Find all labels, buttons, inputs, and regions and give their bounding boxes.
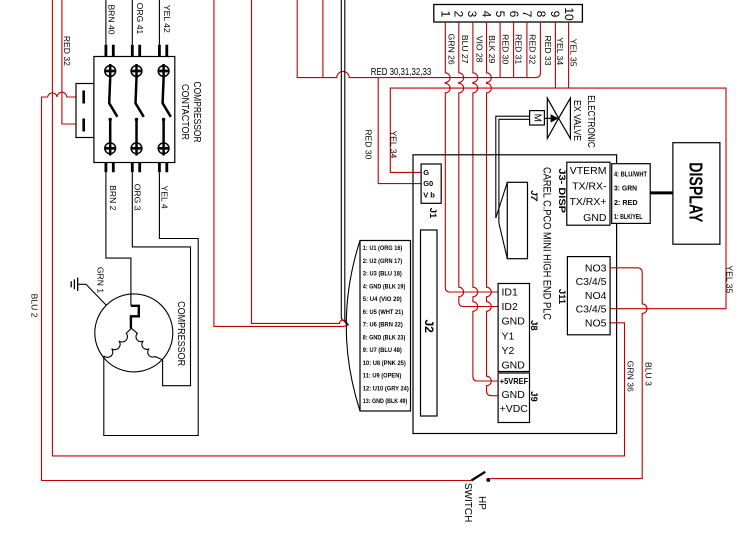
svg-text:+VDC: +VDC [500,403,529,415]
svg-text:BLU 2: BLU 2 [30,294,40,318]
svg-text:SWITCH: SWITCH [462,483,473,522]
svg-text:C3/4/5: C3/4/5 [576,303,607,315]
svg-text:4: BLU/WHT: 4: BLU/WHT [614,171,648,178]
svg-text:3: U3 (BLU 18): 3: U3 (BLU 18) [363,271,402,278]
connector J1 [421,164,441,203]
svg-text:J9: J9 [528,391,539,402]
wire YEL 34 drop (pin9) [554,22,556,88]
svg-text:4: GND (BLK 19): 4: GND (BLK 19) [363,283,406,290]
connector J9 [498,373,529,423]
svg-text:GND: GND [502,389,526,401]
wire BRN 2: contactor to compressor center zigzag [106,172,131,305]
terminal strip TB [434,5,583,23]
valve ELECTRONIC EX VALVE [547,98,570,138]
svg-text:ID1: ID1 [502,287,519,299]
svg-text:+5VREF: +5VREF [500,377,528,386]
svg-text:J2: J2 [422,320,436,334]
svg-text:4: 4 [479,11,493,18]
svg-text:5: U4 (VIO 20): 5: U4 (VIO 20) [363,296,402,303]
connector J8 [498,284,529,372]
svg-text:ORG 41: ORG 41 [135,3,145,35]
svg-text:1: BLK/YEL: 1: BLK/YEL [614,214,643,221]
J2 pin list table [346,241,410,412]
wire YEL 35 (pin10, bus to J1 G and to J11 C3/4/5 via right edge) [390,22,726,309]
svg-text:2: 2 [452,11,466,18]
svg-text:VIO 28: VIO 28 [475,36,485,63]
svg-text:G0: G0 [423,179,433,188]
connector J3-DISP (VTERM block) [567,162,610,225]
svg-text:DISPLAY: DISPLAY [686,162,706,222]
coil terminal bar (bottom) [82,119,85,132]
svg-text:8: 8 [534,11,548,18]
wire BLU 2: coil top to HP switch, hops over x52/x62 [42,92,472,480]
svg-text:J1: J1 [427,208,438,219]
svg-text:NO4: NO4 [585,290,607,302]
DISPLAY unit [673,143,720,245]
svg-text:1: U1 (ORG 16): 1: U1 (ORG 16) [363,245,403,252]
wire RED 31 drop (pin6) [513,22,515,78]
svg-text:GRN 26: GRN 26 [447,34,457,65]
electronic expansion valve cable (2 lines M to J7) [496,116,530,223]
svg-text:RED 30: RED 30 [500,34,510,64]
svg-text:V b: V b [423,190,435,199]
svg-text:RED 33: RED 33 [543,35,553,65]
ground symbol [71,278,106,306]
svg-text:2: RED: 2: RED [614,200,638,207]
svg-text:ID2: ID2 [502,301,519,313]
svg-text:GND: GND [502,316,526,328]
svg-text:YEL 35: YEL 35 [725,265,735,293]
svg-text:13: GND (BLK 49): 13: GND (BLK 49) [363,398,408,405]
svg-text:7: U6 (BRN 22): 7: U6 (BRN 22) [363,322,403,329]
wire ORG 41 [131,0,133,45]
wire RED 32 coil feed (x62) [62,0,83,124]
svg-text:YEL 42: YEL 42 [162,5,172,33]
svg-text:1: 1 [438,11,452,18]
HP switch [471,472,490,482]
svg-text:YEL 4: YEL 4 [160,186,170,209]
svg-text:3: GRN: 3: GRN [614,186,637,193]
wire GRN 26 (pin1 to J8 ID1) [445,22,498,292]
svg-text:RED 31: RED 31 [514,34,524,64]
svg-text:ORG 3: ORG 3 [133,184,143,211]
svg-text:YEL 35: YEL 35 [568,39,578,67]
arrow M to valve [544,117,551,119]
svg-text:NO3: NO3 [585,263,607,275]
svg-text:11: U9 (OPEN): 11: U9 (OPEN) [363,373,402,380]
svg-text:EX VALVE: EX VALVE [571,100,582,141]
svg-text:GND: GND [502,359,526,371]
wire BLU 3: NO3 to HP switch (hops C3/4/5 wire) [490,268,647,479]
compressor contactor K1 box [94,57,175,163]
wire ORG 3: contactor to right winding [132,172,190,385]
svg-text:Y2: Y2 [502,345,515,357]
contactor coil box [76,84,94,138]
svg-text:10: U8 (PNK 25): 10: U8 (PNK 25) [363,360,406,367]
label HP SWITCH [462,483,487,522]
svg-text:YEL 34: YEL 34 [388,130,398,158]
svg-text:GRN 1: GRN 1 [96,267,106,293]
display cable pinout box [612,164,651,224]
svg-text:5: 5 [493,11,507,18]
svg-text:12: U10 (GRY 24): 12: U10 (GRY 24) [363,385,409,392]
svg-text:NO5: NO5 [585,318,607,330]
svg-text:TX/RX+: TX/RX+ [569,196,606,208]
svg-text:3: 3 [465,11,479,18]
wire RED feed L1 (top left, x52) to bottom bus [52,0,624,456]
svg-text:8: GND (BLK 23): 8: GND (BLK 23) [363,334,406,341]
svg-text:VTERM: VTERM [570,165,607,177]
svg-text:RED 32: RED 32 [62,36,72,66]
svg-text:CONTACTOR: CONTACTOR [179,84,190,140]
wire feed to bus (x322.9) [322,0,324,78]
svg-text:HP: HP [476,496,487,510]
svg-text:M: M [532,114,543,122]
wire RED 30 to J1 G0 [378,78,421,184]
wire BLU 27 (pin2 to J8 ID2) [459,22,498,307]
svg-text:BRN 40: BRN 40 [106,4,116,34]
contactor pole 3 [158,45,171,173]
label COMPRESSOR CONTACTOR [179,82,202,143]
wire RED 33 drop (pin8) + bus RED 30,31,32,33 [297,0,540,78]
svg-text:J3- DISP: J3- DISP [556,168,567,213]
svg-text:RED 30,31,32,33: RED 30,31,32,33 [371,66,432,78]
svg-text:6: 6 [507,11,521,18]
svg-text:G: G [423,168,429,177]
coil terminal bar (top) [82,91,85,104]
wire RED 32 drop (pin7) [526,22,528,78]
svg-text:RED 30: RED 30 [364,129,374,159]
svg-text:C3/4/5: C3/4/5 [576,276,607,288]
svg-text:COMPRESSOR: COMPRESSOR [191,82,202,143]
svg-text:GND: GND [583,212,607,224]
svg-text:ELECTRONIC: ELECTRONIC [585,95,596,148]
svg-text:BRN 2: BRN 2 [108,185,118,211]
wire YEL 42 [158,0,160,45]
svg-text:9: 9 [548,11,562,18]
svg-text:2: U2 (GRN 17): 2: U2 (GRN 17) [363,258,403,265]
svg-text:J7: J7 [528,190,539,201]
svg-text:BLU 27: BLU 27 [460,35,470,64]
wire red double to J2 list row 7 [214,0,348,326]
compressor motor M1 [95,294,173,372]
svg-text:CAREL C.PCO MINI HIGH END PLC: CAREL C.PCO MINI HIGH END PLC [541,167,553,320]
contactor pole 1 [105,45,118,173]
wire BRN 40 [105,0,107,45]
svg-text:TX/RX-: TX/RX- [572,181,607,193]
PLC box CAREL C.PCO MINI HIGH END PLC [413,155,617,434]
display cable (thick) [650,191,673,194]
wire U6 feed (black pair from top to J2 list) [341,0,348,325]
svg-text:7: 7 [520,11,534,18]
motor M of EX valve [530,111,545,125]
svg-text:10: 10 [562,7,576,21]
svg-text:BLU 3: BLU 3 [644,362,654,386]
svg-text:Y1: Y1 [502,330,515,342]
wire YEL 4: contactor to left winding [104,172,198,435]
svg-text:YEL 34: YEL 34 [555,37,565,65]
wire BLK 29 (pin4 to J9 GND) [487,22,499,396]
svg-text:RED 32: RED 32 [528,34,538,64]
connector J7 (display plug) [496,182,528,258]
wire RED 30 drop (pin5) [499,22,501,78]
contactor pole 2 [131,45,144,173]
svg-text:6: U5 (WHT 21): 6: U5 (WHT 21) [363,309,404,316]
svg-text:J8: J8 [528,320,539,331]
svg-text:COMPRESSOR: COMPRESSOR [175,301,186,366]
connector J11 [567,257,610,335]
svg-text:J11: J11 [556,289,567,305]
wire VIO 28 (pin3 to J9 +5VREF) [473,22,498,381]
svg-text:BLK 29: BLK 29 [487,35,497,63]
svg-text:GRN 36: GRN 36 [625,361,635,392]
svg-text:9: U7 (BLU 48): 9: U7 (BLU 48) [363,347,402,354]
connector J2 [421,230,438,416]
